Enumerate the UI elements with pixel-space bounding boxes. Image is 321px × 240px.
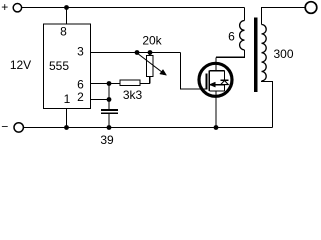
wire pin 1 lead (66, 109, 68, 128)
svg-text:8: 8 (60, 25, 67, 39)
wire pins 6-2 tie (108, 84, 110, 111)
transistor channel bar (208, 71, 210, 91)
svg-text:+: + (1, 0, 8, 14)
svg-text:300: 300 (273, 47, 293, 61)
node cap-ground junction (107, 125, 112, 130)
wire secondary top lead (262, 8, 306, 25)
wire primary top lead (244, 8, 246, 21)
wire 3k3 to pot (140, 83, 150, 85)
wire cap to ground (108, 113, 110, 127)
node pot wiper junction (135, 50, 140, 55)
svg-text:39: 39 (100, 133, 114, 147)
node pin8 junction (64, 5, 69, 10)
node pin1-ground junction (64, 125, 69, 130)
wire pot to gate (181, 53, 207, 90)
transistor drain stub (209, 70, 224, 72)
resistor R2 3k3 (120, 80, 140, 86)
transistor source stub (209, 90, 224, 92)
node pot top junction (148, 50, 153, 55)
wire primary bottom lead (216, 50, 245, 57)
capacitor C1 39n plates (101, 109, 118, 111)
terminal HV output (305, 2, 317, 14)
svg-text:20k: 20k (142, 34, 162, 48)
svg-text:2: 2 (77, 90, 84, 104)
wire bottom ground rail (23, 127, 272, 129)
svg-text:1: 1 (64, 92, 71, 106)
transistor Q1 MOSFET circle (199, 63, 232, 96)
svg-text:3: 3 (77, 45, 84, 59)
body diode D1 (224, 71, 226, 81)
wire secondary bottom lead (262, 81, 273, 128)
transistor body arrow (210, 84, 225, 86)
potentiometer wiper arrow (137, 53, 163, 73)
svg-text:6: 6 (228, 30, 235, 44)
transformer core (254, 18, 258, 93)
wire pin 3 output (91, 52, 181, 54)
svg-text:555: 555 (49, 59, 69, 73)
transistor gate bar (206, 74, 208, 90)
wire pin 2 (91, 99, 109, 101)
transformer T1 secondary winding (262, 25, 267, 81)
wire source lead (215, 91, 217, 128)
node pin6 junction (107, 81, 112, 86)
svg-text:−: − (1, 120, 8, 134)
transformer T1 primary winding (240, 21, 245, 50)
IC U1 555 timer body (44, 24, 91, 109)
svg-text:12V: 12V (10, 58, 31, 72)
node source-ground junction (214, 125, 219, 130)
svg-text:3k3: 3k3 (123, 88, 143, 102)
wire pin 6 (91, 83, 120, 85)
wire drain lead (215, 57, 217, 70)
wire top supply rail (22, 7, 244, 9)
potentiometer R1 20k body (149, 53, 151, 56)
wire pin 8 lead (66, 8, 68, 25)
node pin2 junction (107, 97, 112, 102)
